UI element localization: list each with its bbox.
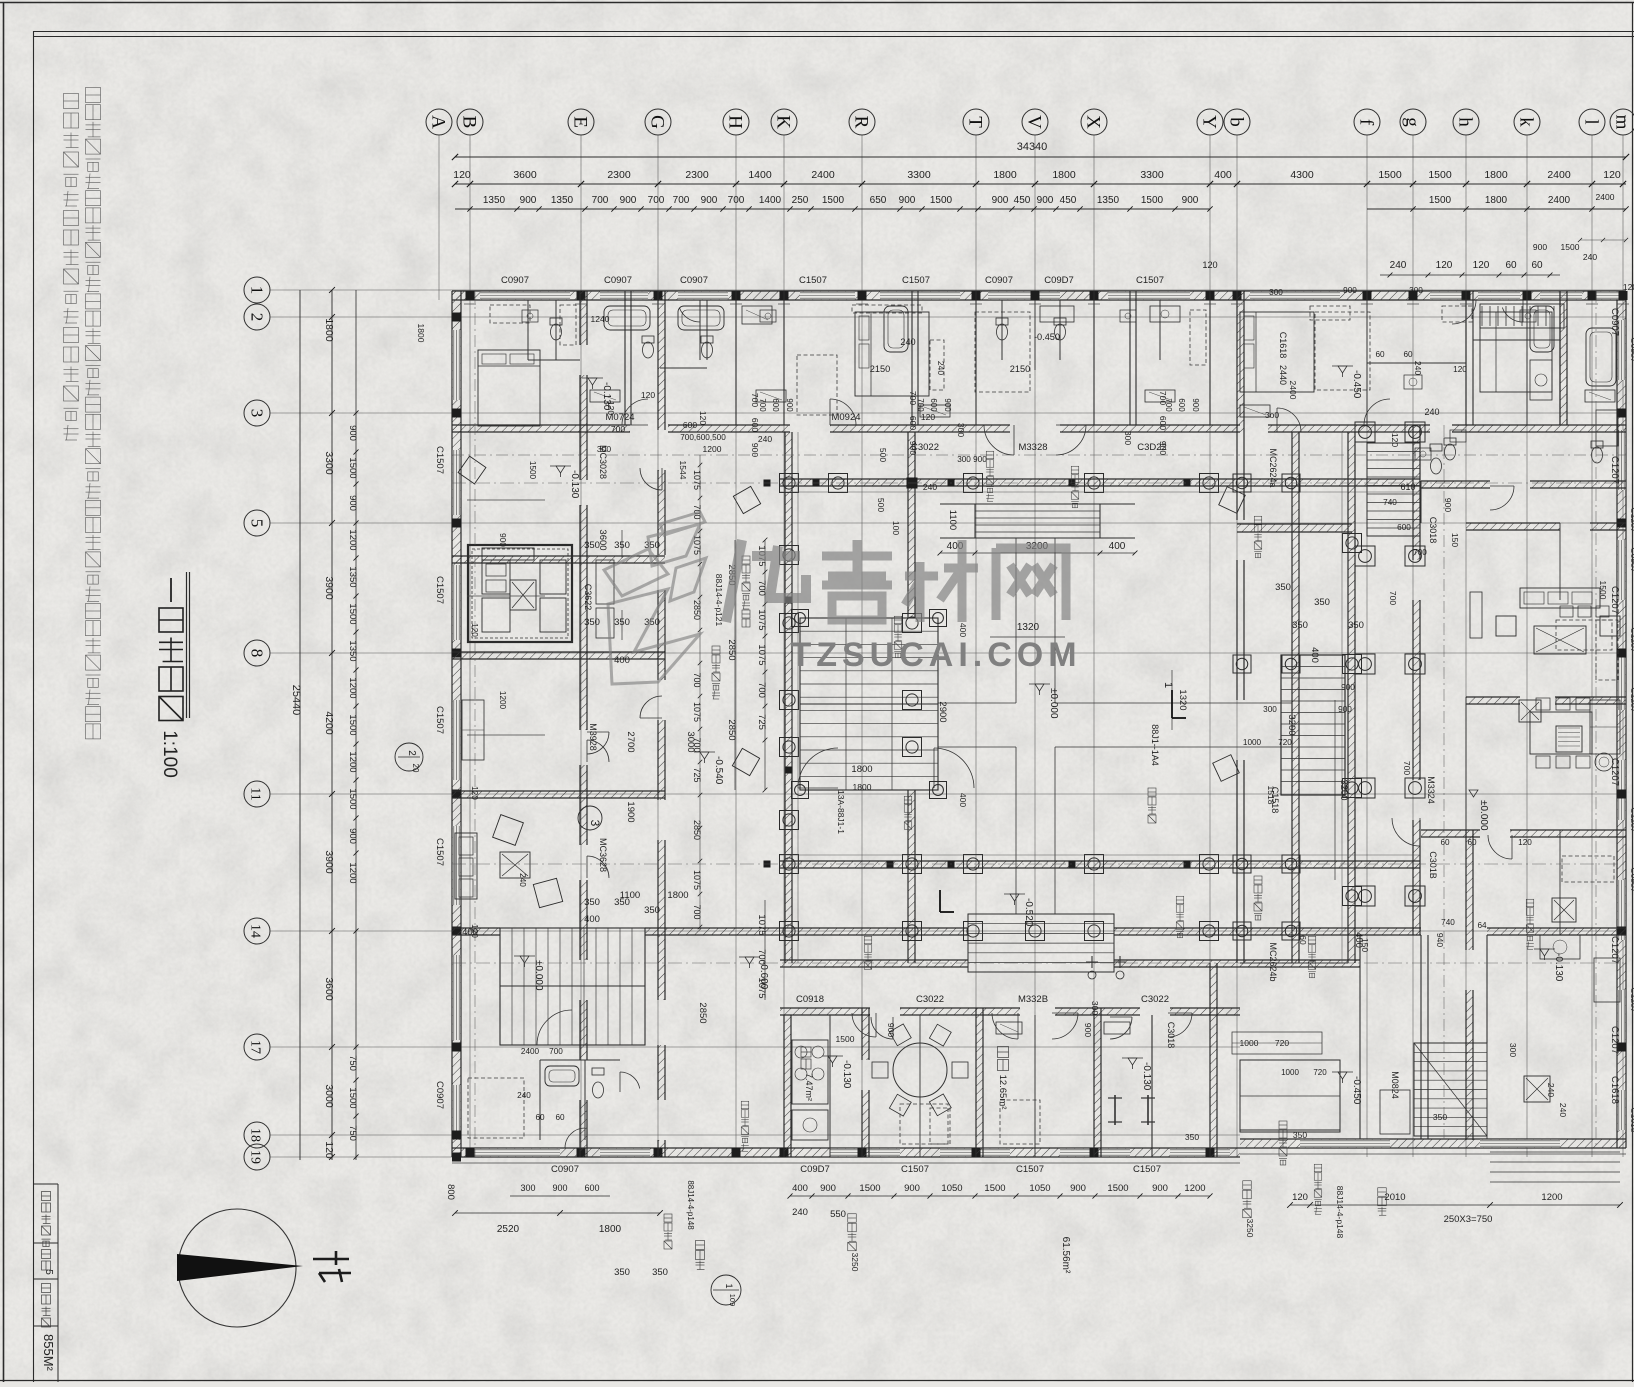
svg-text:240: 240 — [517, 1091, 531, 1100]
svg-text:1500: 1500 — [1598, 581, 1608, 600]
door M332B leaf b — [1052, 1013, 1078, 1039]
svg-text:900: 900 — [1182, 195, 1199, 206]
stair: east side steps — [1367, 443, 1420, 536]
svg-text:34340: 34340 — [1017, 141, 1048, 153]
svg-text:1500: 1500 — [1141, 195, 1164, 206]
window top wall — [988, 292, 1060, 300]
axis line 5 — [270, 522, 1626, 524]
svg-text:2150: 2150 — [1010, 364, 1030, 374]
svg-text:1240: 1240 — [591, 314, 610, 324]
svg-text:240: 240 — [923, 482, 937, 492]
axis line X — [1093, 135, 1095, 1157]
svg-text:120: 120 — [1623, 282, 1634, 292]
svg-text:300: 300 — [1269, 288, 1283, 297]
svg-text:740: 740 — [1441, 918, 1455, 927]
svg-text:600: 600 — [683, 420, 697, 430]
svg-text:120: 120 — [1390, 433, 1400, 447]
svg-text:700: 700 — [692, 904, 702, 919]
svg-text:1200: 1200 — [498, 691, 507, 710]
svg-text:3200: 3200 — [1286, 714, 1297, 735]
svg-text:700: 700 — [758, 398, 767, 412]
right wing cabinet — [1470, 592, 1482, 638]
gym equipment bottom wing — [1114, 1095, 1116, 1125]
svg-text:1800: 1800 — [853, 782, 872, 792]
svg-text:60: 60 — [1375, 350, 1385, 359]
svg-text:700: 700 — [692, 672, 702, 687]
axis bubble 3 — [244, 400, 270, 426]
window left wall — [453, 450, 461, 515]
svg-text:3600: 3600 — [513, 169, 537, 181]
svg-text:1350: 1350 — [347, 640, 358, 661]
svg-text:1075: 1075 — [756, 609, 767, 630]
level marker &#177;0.000 — [1035, 684, 1044, 691]
svg-text:720: 720 — [1278, 738, 1292, 747]
svg-text:88J1--1A4: 88J1--1A4 — [1150, 724, 1160, 766]
svg-text:900: 900 — [498, 533, 507, 547]
circled ref month gate — [711, 1275, 741, 1305]
level marker -0.130 — [588, 378, 597, 385]
columns on bottom wall — [466, 1148, 475, 1157]
svg-text:17: 17 — [248, 1040, 263, 1054]
axis bubble 8 — [244, 640, 270, 666]
top band extra clutter — [742, 306, 772, 324]
svg-text:3250: 3250 — [850, 1253, 860, 1272]
notes column 2 — [64, 94, 79, 109]
top right partition — [1560, 291, 1567, 425]
stair: north porch steps — [975, 504, 1100, 538]
svg-text:M3328: M3328 — [1018, 442, 1047, 453]
axis bubble H — [723, 109, 749, 135]
axis bubble G — [645, 109, 671, 135]
svg-text:2900: 2900 — [937, 701, 948, 722]
svg-text:1500: 1500 — [1107, 1183, 1128, 1194]
svg-text:C3022: C3022 — [1141, 994, 1169, 1005]
svg-text:1500: 1500 — [347, 1087, 358, 1108]
window left wall — [453, 565, 461, 640]
svg-text:2400: 2400 — [811, 169, 835, 181]
bottom wing north wall — [452, 928, 500, 935]
door bottom left — [565, 1128, 585, 1148]
corridor wall south of top rooms — [452, 425, 630, 432]
window right wall — [1618, 990, 1626, 1050]
svg-text:5: 5 — [43, 1269, 54, 1275]
axis line b — [1236, 135, 1238, 1157]
svg-text:900: 900 — [899, 195, 916, 206]
svg-text:25440: 25440 — [290, 685, 302, 716]
door bottom room — [852, 1013, 876, 1037]
svg-text:1: 1 — [1162, 682, 1174, 688]
svg-text:Y: Y — [1199, 115, 1220, 129]
right wing hall wall — [1421, 481, 1490, 488]
svg-text:1800: 1800 — [667, 890, 688, 901]
axis line Y — [1209, 135, 1211, 1157]
svg-text:900: 900 — [552, 1183, 567, 1193]
stair: entrance hall steps (bottom-left) — [500, 928, 645, 1045]
svg-text:700: 700 — [611, 424, 625, 434]
bottom-left rooms detail — [468, 1078, 524, 1138]
axis bubble E — [568, 109, 594, 135]
window left wall — [453, 330, 461, 400]
section mark 2 bottom — [939, 890, 941, 912]
axis bubble 14 — [244, 918, 270, 944]
svg-text:8: 8 — [248, 649, 267, 658]
axis bubble 19 — [244, 1144, 270, 1170]
svg-text:C1207: C1207 — [1629, 627, 1634, 652]
svg-text:-0.130: -0.130 — [569, 470, 580, 499]
svg-text:1:100: 1:100 — [159, 730, 180, 778]
svg-text:1050: 1050 — [1029, 1183, 1050, 1194]
bed top right room — [1480, 312, 1552, 392]
svg-text:300: 300 — [1263, 705, 1277, 714]
svg-text:900: 900 — [886, 1023, 896, 1037]
svg-text:1800: 1800 — [323, 318, 335, 342]
svg-text:C1207: C1207 — [1609, 758, 1620, 786]
svg-text:V: V — [1024, 115, 1045, 129]
svg-text:3900: 3900 — [323, 850, 335, 874]
svg-text:2150: 2150 — [870, 364, 890, 374]
svg-text:MC2624b: MC2624b — [1268, 942, 1278, 981]
top band partitions — [624, 291, 626, 425]
right wing fixtures — [1404, 375, 1422, 389]
svg-text:2400: 2400 — [1596, 192, 1615, 202]
svg-text:250X3=750: 250X3=750 — [1444, 1214, 1493, 1225]
svg-text:720: 720 — [1313, 1068, 1327, 1077]
svg-text:900: 900 — [908, 441, 918, 455]
right wing divider 1 — [1466, 697, 1520, 704]
svg-text:700: 700 — [549, 1047, 563, 1056]
svg-text:740: 740 — [1383, 498, 1397, 507]
svg-text:400: 400 — [792, 1183, 808, 1194]
right wing west wall — [1413, 425, 1420, 560]
svg-text:900: 900 — [1158, 441, 1168, 455]
svg-text:3: 3 — [588, 820, 602, 827]
svg-text:1500: 1500 — [1428, 169, 1452, 181]
svg-text:120: 120 — [1436, 260, 1453, 271]
svg-text:120: 120 — [1603, 169, 1621, 181]
bottom wing dashed beds/desks — [900, 1104, 948, 1144]
window right wall — [1618, 650, 1626, 710]
bottom dim row minor — [790, 1195, 1210, 1197]
axis bubble 17 — [244, 1034, 270, 1060]
svg-text:C1207: C1207 — [1609, 456, 1620, 484]
door arc entrance — [537, 1010, 572, 1045]
axis line g — [1412, 135, 1414, 1157]
svg-text:700: 700 — [916, 398, 925, 412]
window top wall — [1596, 292, 1620, 300]
svg-text:b: b — [1226, 117, 1247, 127]
level marker -0.130 — [1128, 1058, 1137, 1065]
bottom annotation cornice rotated — [848, 1214, 857, 1223]
svg-text:C1507: C1507 — [1133, 1164, 1161, 1175]
level marker -0.130 — [556, 466, 565, 473]
svg-text:350: 350 — [584, 897, 600, 908]
left dim column minor — [355, 290, 357, 1160]
svg-text:300: 300 — [1123, 431, 1133, 445]
svg-text:1500: 1500 — [1561, 242, 1580, 252]
svg-text:1350: 1350 — [347, 566, 358, 587]
top band bathroom partitions — [527, 300, 529, 360]
svg-text:60: 60 — [1440, 838, 1450, 847]
door arc main gate right — [934, 748, 974, 788]
axis line V — [1034, 135, 1036, 1157]
svg-text:350: 350 — [652, 1267, 668, 1278]
window bottom right wall — [1300, 1140, 1390, 1148]
svg-text:109: 109 — [728, 1294, 737, 1307]
svg-text:600: 600 — [1177, 398, 1186, 412]
svg-text:1900: 1900 — [625, 801, 636, 822]
svg-text:60: 60 — [1505, 260, 1517, 271]
door bottom-left room — [620, 1072, 640, 1089]
svg-text:940: 940 — [1435, 933, 1445, 947]
svg-text:2300: 2300 — [607, 169, 631, 181]
bottom partition R — [862, 1008, 869, 1060]
dims north porch — [940, 552, 1135, 554]
svg-text:900: 900 — [620, 195, 637, 206]
axis bubble f — [1354, 109, 1380, 135]
svg-text:240: 240 — [1390, 260, 1407, 271]
svg-text:TZSUCAI.COM: TZSUCAI.COM — [790, 636, 1081, 674]
svg-text:1200: 1200 — [1541, 1192, 1562, 1203]
svg-text:1200: 1200 — [347, 751, 358, 772]
svg-text:2850: 2850 — [726, 639, 737, 660]
small armchair courtyard — [732, 748, 759, 775]
svg-text:1500: 1500 — [984, 1183, 1005, 1194]
svg-text:350: 350 — [584, 617, 600, 628]
left wing interior detail — [467, 499, 545, 501]
svg-text:±0.000: ±0.000 — [533, 960, 544, 991]
window bottom wall — [470, 1149, 560, 1157]
svg-text:C1207: C1207 — [1629, 507, 1634, 532]
axis line T — [975, 135, 977, 1157]
window right wall — [1618, 760, 1626, 820]
svg-text:700: 700 — [756, 949, 767, 965]
courtyard cross path — [1015, 538, 1017, 703]
svg-text:H: H — [725, 115, 746, 129]
svg-text:1200: 1200 — [347, 677, 358, 698]
courtyard east colonnade beam — [1348, 432, 1355, 963]
svg-text:1200: 1200 — [347, 529, 358, 550]
left wing room divider 2 — [452, 652, 665, 659]
svg-text:700: 700 — [1388, 591, 1398, 605]
svg-text:700: 700 — [692, 737, 702, 752]
right wing corridor lines — [1420, 935, 1422, 1139]
door top right room 2 — [1502, 308, 1523, 323]
svg-text:600: 600 — [584, 1183, 599, 1193]
courtyard colonnade columns (open pillars with bases) — [780, 474, 799, 493]
circled ref 2/20 — [395, 743, 423, 771]
svg-text:1800: 1800 — [1485, 195, 1508, 206]
svg-text:1075: 1075 — [756, 914, 767, 935]
svg-text:650: 650 — [870, 195, 887, 206]
right wing inner partitions — [1465, 291, 1467, 425]
svg-text:550: 550 — [830, 1209, 846, 1220]
door M3328 left leaf — [984, 425, 1014, 455]
svg-text:600: 600 — [771, 398, 780, 412]
svg-text:C0918: C0918 — [796, 994, 824, 1005]
svg-text:C1507: C1507 — [1016, 1164, 1044, 1175]
title block boxes bottom-left — [57, 1184, 59, 1382]
svg-text:350: 350 — [1433, 1112, 1447, 1122]
svg-text:T: T — [965, 116, 986, 128]
svg-text:700: 700 — [756, 682, 767, 698]
svg-text:120: 120 — [1292, 1192, 1308, 1203]
svg-text:3300: 3300 — [323, 451, 335, 475]
door M0924 — [830, 399, 856, 425]
svg-text:600: 600 — [1397, 523, 1411, 532]
svg-text:E: E — [570, 116, 591, 128]
svg-text:X: X — [1083, 115, 1104, 129]
svg-text:350: 350 — [1275, 582, 1291, 593]
svg-text:C1207: C1207 — [1609, 586, 1620, 614]
svg-text:M0824: M0824 — [1390, 1071, 1400, 1099]
svg-text:900: 900 — [347, 425, 358, 441]
circled ref 3 — [578, 806, 602, 830]
svg-text:700: 700 — [592, 195, 609, 206]
bottom dim row left — [455, 1212, 660, 1214]
axis bubble X — [1081, 109, 1107, 135]
axis bubble 2 — [244, 304, 270, 330]
svg-text:64: 64 — [1477, 921, 1487, 930]
right exterior wall — [1617, 291, 1626, 1148]
svg-text:C1507: C1507 — [1136, 275, 1164, 286]
svg-text:700: 700 — [673, 195, 690, 206]
courtyard south colonnade beam — [780, 861, 1420, 868]
courtyard colonnade double beam lines — [780, 491, 1420, 493]
svg-text:-0.130: -0.130 — [841, 1060, 852, 1089]
svg-text:C0907: C0907 — [680, 275, 708, 286]
svg-text:B: B — [459, 116, 480, 129]
svg-text:900: 900 — [1443, 498, 1453, 512]
svg-text:240: 240 — [518, 873, 527, 887]
extra hatch marks on top wall columns — [464, 303, 476, 305]
svg-text:-0.130: -0.130 — [1141, 1062, 1152, 1091]
door right wing — [1488, 835, 1512, 859]
door left wing — [640, 468, 662, 490]
east porch steps — [1281, 655, 1345, 795]
svg-text:4200: 4200 — [323, 711, 335, 735]
svg-text:900: 900 — [1341, 683, 1355, 692]
svg-text:C1507: C1507 — [434, 706, 445, 734]
svg-text:3900: 3900 — [323, 576, 335, 600]
svg-text:350: 350 — [1314, 597, 1330, 608]
svg-text:900: 900 — [1070, 1183, 1086, 1194]
inner dim strip west courtyard — [734, 540, 736, 790]
svg-text:120: 120 — [470, 924, 479, 938]
axis bubble g — [1400, 109, 1426, 135]
title block pseudo text 3 — [42, 1284, 51, 1293]
svg-text:400: 400 — [584, 914, 600, 925]
svg-text:240: 240 — [758, 434, 772, 444]
right mid cabinets — [1590, 700, 1620, 754]
inner frame line — [33, 31, 35, 1382]
left dim column major — [331, 290, 333, 1160]
door bottom room 2 — [1168, 1013, 1192, 1037]
svg-text:11: 11 — [248, 787, 263, 800]
axis bubble m — [1610, 109, 1634, 135]
svg-text:3300: 3300 — [907, 169, 931, 181]
svg-text:725: 725 — [692, 767, 702, 782]
door bottom 3 — [871, 1017, 893, 1039]
svg-text:855M²: 855M² — [41, 1334, 56, 1372]
right top small dim strip — [1580, 239, 1626, 241]
svg-text:350: 350 — [614, 1267, 630, 1278]
level marker east porch — [1469, 790, 1478, 797]
window top wall — [1250, 292, 1340, 300]
svg-text:1800: 1800 — [416, 324, 426, 343]
door right corridor — [1364, 399, 1390, 425]
svg-text:400: 400 — [958, 793, 968, 807]
svg-text:C1618: C1618 — [1609, 1076, 1620, 1104]
window left wall — [453, 700, 461, 780]
axis line m — [1622, 135, 1624, 1157]
title underline — [186, 572, 188, 718]
svg-text:900: 900 — [520, 195, 537, 206]
svg-text:1800: 1800 — [993, 169, 1017, 181]
axis line h — [1465, 135, 1467, 1157]
courtyard west colonnade beam — [785, 432, 792, 963]
door left wing 2 — [640, 696, 662, 718]
svg-text:C0907: C0907 — [1609, 308, 1620, 336]
svg-text:120: 120 — [470, 623, 479, 637]
svg-text:C1507: C1507 — [799, 275, 827, 286]
svg-text:240: 240 — [936, 361, 946, 375]
svg-text:1075: 1075 — [756, 977, 767, 998]
axis bubble 5 — [244, 510, 270, 536]
east veranda wall — [1236, 432, 1238, 520]
level marker -0.130 — [1540, 949, 1549, 956]
living room sofa set (scalloped rug) — [468, 545, 572, 642]
svg-text:1800: 1800 — [599, 1224, 622, 1235]
bed top room 3 — [1240, 312, 1314, 392]
svg-text:900: 900 — [701, 195, 718, 206]
svg-text:MC2624a: MC2624a — [1268, 448, 1278, 487]
svg-text:1500: 1500 — [347, 457, 358, 478]
svg-text:250: 250 — [792, 195, 809, 206]
svg-text:1350: 1350 — [1097, 195, 1120, 206]
axis line H — [735, 135, 737, 1157]
compass needle — [177, 1254, 303, 1281]
svg-text:3600: 3600 — [323, 977, 335, 1001]
svg-text:900: 900 — [820, 1183, 836, 1194]
svg-text:700,600,500: 700,600,500 — [680, 433, 726, 442]
svg-text:-0.450: -0.450 — [1351, 370, 1362, 399]
top rooms armchair — [458, 456, 486, 484]
svg-text:±0.000: ±0.000 — [1478, 800, 1489, 831]
svg-text:240: 240 — [792, 1207, 808, 1218]
svg-text:2700: 2700 — [625, 731, 636, 752]
left exterior wall — [452, 291, 461, 1157]
svg-text:14: 14 — [248, 924, 263, 938]
svg-text:C1207: C1207 — [1609, 936, 1620, 964]
courtyard annotation texts rotated — [1071, 466, 1079, 474]
bottom wing colonnade beam — [780, 960, 968, 967]
section mark 1 — [1171, 690, 1173, 718]
svg-text:300: 300 — [520, 1183, 535, 1193]
axis bubble K — [771, 109, 797, 135]
svg-text:C1207: C1207 — [1609, 1026, 1620, 1054]
svg-text:7.47m²: 7.47m² — [804, 1073, 814, 1101]
svg-text:60: 60 — [1467, 838, 1477, 847]
svg-text:120: 120 — [323, 1141, 335, 1159]
svg-text:2: 2 — [406, 750, 417, 756]
svg-text:K: K — [773, 115, 794, 129]
svg-text:-0.520: -0.520 — [1023, 898, 1034, 927]
columns on left wall — [452, 313, 461, 322]
svg-text:88J14-4-p148: 88J14-4-p148 — [1335, 1186, 1345, 1239]
right wing extra partitions — [1526, 291, 1528, 425]
svg-text:1320: 1320 — [1177, 689, 1188, 710]
east yard north wall — [1237, 524, 1352, 532]
